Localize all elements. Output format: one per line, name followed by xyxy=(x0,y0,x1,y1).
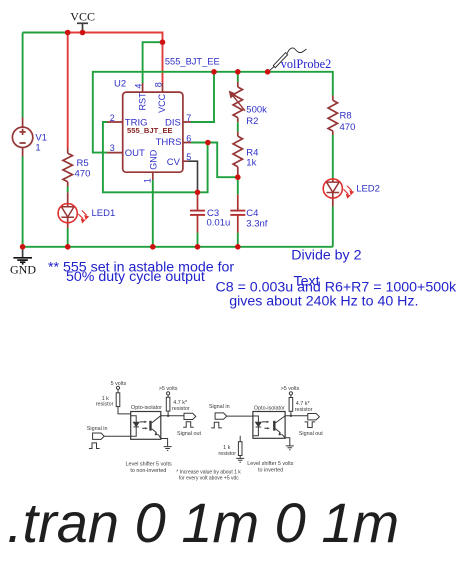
U2 pin stubs xyxy=(107,83,191,180)
inset footnote xyxy=(176,470,241,482)
inset diagram 2 labels xyxy=(209,386,323,474)
wire TRIG down and across to THRS junction xyxy=(103,122,208,192)
wire RST pin branch xyxy=(143,42,163,83)
node junction 14 xyxy=(235,244,241,250)
wire bottom ground rail xyxy=(23,246,333,248)
wire VCC rail (red) xyxy=(65,33,163,83)
svg-text:C4: C4 xyxy=(246,208,258,219)
svg-text:Level shifter 5 volts: Level shifter 5 volts xyxy=(247,461,293,467)
resistor R5 xyxy=(63,149,72,187)
svg-text:Level shifter 5 volts: Level shifter 5 volts xyxy=(126,461,172,467)
node junction 5 xyxy=(235,69,241,75)
svg-text:8: 8 xyxy=(153,82,163,87)
svg-text:THRS: THRS xyxy=(156,137,182,148)
svg-text:VCC: VCC xyxy=(157,93,167,113)
node junction 2 xyxy=(80,30,86,36)
R2 wiper arrow xyxy=(230,92,245,111)
svg-text:3: 3 xyxy=(110,143,115,153)
svg-text:to inverted: to inverted xyxy=(258,467,283,473)
svg-text:R2: R2 xyxy=(246,116,258,127)
node junction 6 xyxy=(265,69,271,75)
svg-text:4: 4 xyxy=(133,84,143,89)
svg-text:resistor: resistor xyxy=(96,402,114,408)
svg-text:OUT: OUT xyxy=(125,148,145,159)
node junction 9 xyxy=(195,190,201,196)
voltage source V1 xyxy=(12,118,32,157)
svg-text:470: 470 xyxy=(340,122,356,133)
wire 555_BJT_EE net: OUT up, across top, down to R8 xyxy=(93,72,333,153)
svg-text:6: 6 xyxy=(186,134,191,144)
node junction 3 xyxy=(160,39,166,45)
svg-text:GND: GND xyxy=(149,149,159,170)
wire C3 bottom to rail xyxy=(197,233,199,247)
capacitor C4 xyxy=(230,195,245,233)
svg-text:1: 1 xyxy=(35,142,40,153)
wire GND pin 1 down to rail xyxy=(152,180,154,247)
node junction 11 xyxy=(65,244,71,250)
svg-text:DIS: DIS xyxy=(165,117,181,128)
inset diagram 2: level shifter inverted xyxy=(211,392,319,462)
svg-text:500k: 500k xyxy=(246,104,267,115)
wire R5 to LED1 gap xyxy=(67,187,69,193)
svg-text:1k: 1k xyxy=(246,157,256,168)
svg-text:R8: R8 xyxy=(340,111,352,122)
inset diagram 1 labels xyxy=(87,381,202,474)
svg-text:LED2: LED2 xyxy=(356,184,380,195)
wire V1 bottom vertical xyxy=(22,157,24,247)
svg-text:VCC: VCC xyxy=(70,9,95,23)
wire DIS up to net xyxy=(191,72,214,122)
svg-text:470: 470 xyxy=(75,169,91,180)
svg-text:7: 7 xyxy=(186,113,191,123)
svg-text:resistor: resistor xyxy=(218,451,236,457)
capacitor C3 xyxy=(190,192,205,232)
svg-text:CV: CV xyxy=(167,157,181,168)
wire R8 to LED2 xyxy=(332,135,334,179)
svg-text:to non-inverted: to non-inverted xyxy=(130,468,166,474)
svg-text:Signal in: Signal in xyxy=(87,426,108,432)
svg-text:2: 2 xyxy=(110,113,115,123)
svg-text:resistor: resistor xyxy=(172,406,190,412)
ground xyxy=(13,247,32,264)
svg-text:resistor: resistor xyxy=(295,407,313,413)
node junction 8 xyxy=(235,174,241,180)
resistor R2 potentiometer xyxy=(233,82,242,122)
svg-text:LED1: LED1 xyxy=(92,208,116,219)
svg-text:>5 volts: >5 volts xyxy=(159,386,178,392)
wire LED2 bottom to rail xyxy=(332,207,334,247)
node junction 10 xyxy=(20,244,26,250)
wire THRS jog to R4/C4 junction xyxy=(208,143,238,178)
node junction 7 xyxy=(205,140,211,146)
svg-text:GND: GND xyxy=(10,263,36,277)
VCC power symbol xyxy=(77,23,88,32)
svg-text:RST: RST xyxy=(138,92,148,111)
wire LED1 bottom to rail xyxy=(67,228,69,247)
node junction 13 xyxy=(195,244,201,250)
svg-text:Divide by 2: Divide by 2 xyxy=(291,248,361,264)
resistor R8 xyxy=(328,96,337,136)
svg-text:U2: U2 xyxy=(114,78,126,89)
svg-text:Signal in: Signal in xyxy=(209,404,230,410)
svg-text:for every volt above +5 vdc: for every volt above +5 vdc xyxy=(179,475,239,481)
inset diagram 1: level shifter non-inverted xyxy=(89,386,196,450)
op-amp/timer U2 555_BJT_EE chip body xyxy=(123,92,183,172)
svg-text:Opto-isolator: Opto-isolator xyxy=(131,405,162,411)
wire top rail left (green) xyxy=(23,32,65,34)
svg-text:gives about 240k Hz to 40 Hz.: gives about 240k Hz to 40 Hz. xyxy=(229,294,418,310)
svg-text:Opto-isolator: Opto-isolator xyxy=(254,406,285,412)
svg-text:50% duty cycle output: 50% duty cycle output xyxy=(66,269,205,285)
resistor R4 xyxy=(233,132,242,176)
svg-text:Signal out: Signal out xyxy=(177,431,201,437)
node junction 12 xyxy=(150,244,156,250)
wire R5 branch from VCC (red) xyxy=(67,33,69,149)
svg-text:>5 volts: >5 volts xyxy=(281,386,300,392)
svg-text:5 volts: 5 volts xyxy=(111,381,127,387)
svg-text:Signal out: Signal out xyxy=(299,431,323,437)
svg-text:0.01u: 0.01u xyxy=(207,217,231,228)
svg-text:.tran 0 1m 0 1m: .tran 0 1m 0 1m xyxy=(7,491,399,554)
LED LED2 xyxy=(323,179,353,207)
svg-text:1: 1 xyxy=(143,178,153,183)
wire net to R2 stub xyxy=(237,72,239,82)
wire CV (dark) xyxy=(188,161,198,190)
svg-text:555_BJT_EE: 555_BJT_EE xyxy=(165,57,220,67)
svg-text:R5: R5 xyxy=(77,158,89,169)
svg-text:5: 5 xyxy=(186,152,191,162)
wire R4/C4 junction to C4 xyxy=(237,177,239,195)
svg-text:TRIG: TRIG xyxy=(125,117,148,128)
wire between R2 and R4 xyxy=(237,122,239,132)
svg-text:volProbe2: volProbe2 xyxy=(281,57,332,71)
svg-text:3.3nf: 3.3nf xyxy=(246,219,267,230)
wire V1 top vertical xyxy=(22,33,24,118)
LED LED1 xyxy=(58,192,88,228)
probe volProbe2 xyxy=(268,48,307,72)
wire C4 bottom to rail xyxy=(237,233,239,247)
node junction 4 xyxy=(211,69,217,75)
node junction 1 xyxy=(65,30,71,36)
